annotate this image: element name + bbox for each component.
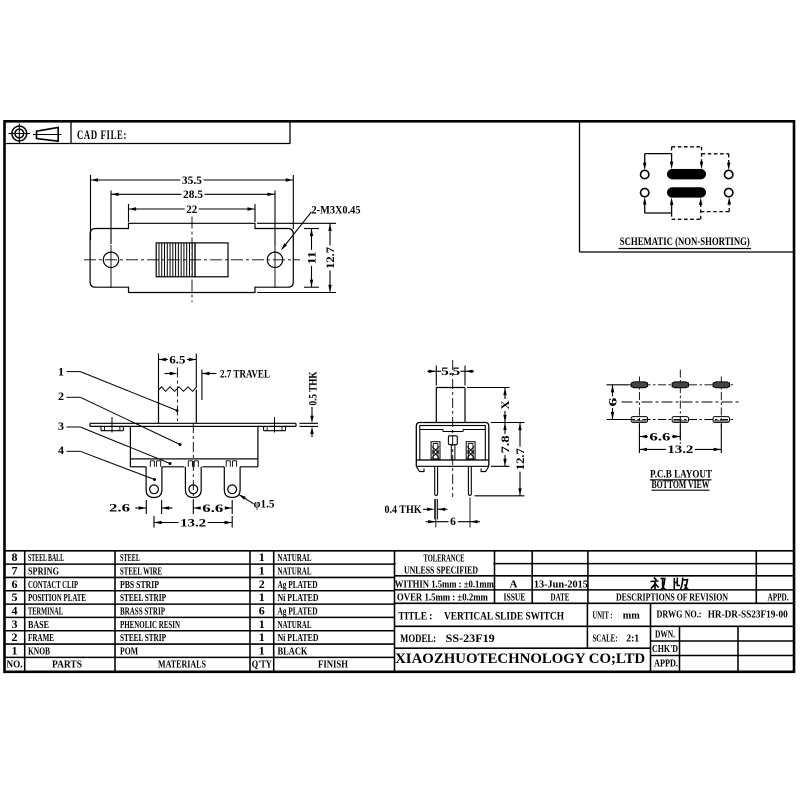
svg-text:CAD FILE:: CAD FILE: (77, 127, 127, 142)
svg-text:SCHEMATIC (NON-SHORTING): SCHEMATIC (NON-SHORTING) (620, 236, 750, 248)
svg-text:STEEL: STEEL (120, 553, 140, 564)
svg-text:STEEL BALL: STEEL BALL (28, 553, 64, 564)
svg-text:POSITION PLATE: POSITION PLATE (28, 593, 86, 604)
svg-text:FINISH: FINISH (318, 660, 348, 671)
svg-text:2: 2 (12, 630, 18, 644)
svg-text:Ni PLATED: Ni PLATED (278, 593, 319, 604)
svg-text:VERTICAL SLIDE SWITCH: VERTICAL SLIDE SWITCH (444, 609, 565, 623)
svg-text:FRAME: FRAME (28, 633, 54, 644)
svg-text:35.5: 35.5 (182, 175, 202, 187)
svg-text:CONTACT CLIP: CONTACT CLIP (28, 580, 78, 591)
svg-text:TERMINAL: TERMINAL (28, 607, 63, 618)
svg-text:1: 1 (259, 630, 265, 644)
svg-text:4: 4 (58, 443, 64, 457)
svg-text:13-Jun-2015: 13-Jun-2015 (534, 579, 588, 590)
svg-text:6: 6 (12, 577, 18, 591)
svg-text:1: 1 (259, 617, 265, 631)
svg-text:Ni PLATED: Ni PLATED (278, 633, 319, 644)
svg-text:PHENOLIC RESIN: PHENOLIC RESIN (120, 620, 180, 631)
svg-text:1: 1 (259, 643, 265, 657)
svg-text:POM: POM (120, 646, 138, 657)
svg-text:13.2: 13.2 (180, 517, 206, 529)
svg-text:28.5: 28.5 (183, 189, 203, 201)
svg-text:BRASS STRIP: BRASS STRIP (120, 607, 165, 618)
svg-text:6.5: 6.5 (169, 354, 185, 366)
svg-text:DESCRIPTIONS OF REVISION: DESCRIPTIONS OF REVISION (616, 592, 728, 603)
svg-text:DATE: DATE (551, 592, 570, 603)
svg-text:ISSUE: ISSUE (504, 592, 526, 603)
svg-text:13.2: 13.2 (667, 444, 693, 456)
svg-text:Ag PLATED: Ag PLATED (278, 607, 318, 618)
svg-text:HR-DR-SS23F19-00: HR-DR-SS23F19-00 (708, 610, 788, 621)
svg-text:22: 22 (186, 204, 197, 216)
svg-text:SCALE:: SCALE: (593, 634, 618, 645)
svg-text:6.6: 6.6 (202, 503, 223, 515)
svg-text:XIAOZHUOTECHNOLOGY CO;LTD: XIAOZHUOTECHNOLOGY CO;LTD (395, 651, 645, 667)
svg-text:TITLE :: TITLE : (398, 609, 432, 623)
svg-text:SS-23F19: SS-23F19 (446, 631, 495, 645)
svg-text:A: A (510, 578, 518, 590)
svg-text:DRWG NO.:: DRWG NO.: (657, 610, 702, 621)
svg-text:4: 4 (12, 604, 18, 618)
svg-text:6: 6 (450, 516, 456, 528)
svg-text:2: 2 (58, 389, 64, 403)
svg-text:5.5: 5.5 (441, 366, 460, 378)
svg-text:APPD.: APPD. (654, 659, 678, 670)
svg-text:2:1: 2:1 (626, 634, 639, 645)
svg-text:φ1.5: φ1.5 (254, 499, 275, 511)
svg-text:TOLERANCE: TOLERANCE (424, 554, 465, 565)
svg-text:0.5 THK: 0.5 THK (308, 371, 320, 405)
svg-text:STEEL WIRE: STEEL WIRE (120, 567, 162, 578)
svg-text:PBS STRIP: PBS STRIP (120, 580, 159, 591)
svg-text:Q'TY: Q'TY (252, 660, 272, 671)
svg-text:11: 11 (306, 251, 318, 264)
svg-text:KNOB: KNOB (28, 646, 50, 657)
svg-text:6.6: 6.6 (649, 431, 670, 443)
svg-text:STEEL STRIP: STEEL STRIP (120, 633, 166, 644)
svg-text:STEEL STRIP: STEEL STRIP (120, 593, 166, 604)
svg-text:APPD.: APPD. (768, 592, 789, 603)
svg-text:1: 1 (259, 564, 265, 578)
svg-text:UNLESS SPECIFIED: UNLESS SPECIFIED (404, 566, 478, 577)
svg-text:2.6: 2.6 (109, 503, 130, 515)
svg-text:6: 6 (607, 397, 619, 406)
svg-text:1: 1 (259, 550, 265, 564)
svg-text:NO.: NO. (7, 660, 23, 671)
svg-text:8: 8 (12, 550, 18, 564)
svg-text:12.7: 12.7 (515, 448, 527, 470)
svg-text:7.8: 7.8 (500, 435, 512, 453)
svg-text:CHK'D: CHK'D (652, 644, 678, 655)
svg-text:SPRING: SPRING (28, 567, 59, 578)
svg-text:3: 3 (58, 419, 64, 433)
svg-text:BASE: BASE (28, 620, 49, 631)
svg-text:7: 7 (12, 564, 18, 578)
svg-text:OVER 1.5mm : ±0.2mm: OVER 1.5mm : ±0.2mm (397, 592, 488, 603)
svg-text:mm: mm (623, 611, 640, 622)
svg-text:PARTS: PARTS (52, 660, 82, 671)
svg-text:X: X (500, 400, 512, 410)
svg-text:1: 1 (12, 643, 18, 657)
svg-text:UNIT :: UNIT : (593, 611, 613, 622)
svg-text:DWN.: DWN. (655, 630, 675, 641)
svg-text:Ag PLATED: Ag PLATED (278, 580, 318, 591)
svg-text:0.4 THK: 0.4 THK (385, 504, 422, 516)
svg-text:6: 6 (259, 604, 265, 618)
svg-text:MATERIALS: MATERIALS (158, 660, 206, 671)
svg-text:12.7: 12.7 (325, 247, 337, 269)
svg-text:1: 1 (259, 590, 265, 604)
svg-text:MODEL:: MODEL: (400, 631, 436, 645)
svg-text:NATURAL: NATURAL (278, 620, 312, 631)
svg-text:2.7 TRAVEL: 2.7 TRAVEL (220, 368, 270, 380)
svg-text:5: 5 (12, 590, 18, 604)
svg-text:BLACK: BLACK (278, 646, 309, 657)
svg-text:WITHIN 1.5mm : ±0.1mm: WITHIN 1.5mm : ±0.1mm (395, 579, 494, 590)
svg-text:3: 3 (12, 617, 18, 631)
svg-text:1: 1 (58, 365, 64, 379)
svg-text:NATURAL: NATURAL (278, 567, 312, 578)
svg-text:2-M3X0.45: 2-M3X0.45 (312, 205, 361, 217)
svg-text:BOTTOM VIEW: BOTTOM VIEW (652, 479, 710, 491)
svg-text:2: 2 (259, 577, 265, 591)
svg-text:NATURAL: NATURAL (278, 553, 312, 564)
